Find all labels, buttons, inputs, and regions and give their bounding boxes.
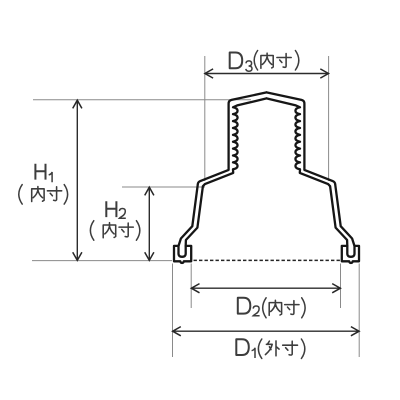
D3 left extension line: [204, 56, 206, 181]
D3 dimension line: [205, 73, 328, 75]
right foot rim: [342, 246, 359, 263]
left foot rim: [174, 246, 191, 263]
D3 right extension line: [328, 56, 330, 181]
H2 top extension line: [122, 186, 205, 188]
D2 right extension line: [340, 264, 342, 309]
D2 dimension line: [192, 287, 341, 289]
cap wall cross-section left half: [179, 92, 267, 256]
H2 dimension line: [148, 187, 150, 260]
H1 top extension line: [33, 99, 251, 101]
label D3 (inner): [230, 53, 243, 69]
bottom extension line: [32, 260, 172, 262]
label D1 (outer): [236, 339, 249, 355]
D2 left extension line: [190, 264, 192, 309]
label H2 (inner): [106, 201, 116, 217]
label H1 (inner): [35, 164, 45, 180]
H1 dimension line: [76, 101, 78, 261]
D1 dimension line: [173, 330, 359, 332]
cap wall cross-section right half: [267, 92, 355, 256]
label D2 (inner): [238, 298, 251, 314]
dashed bottom opening line: [194, 259, 341, 261]
D1 left extension line: [172, 264, 174, 358]
D1 right extension line: [358, 264, 360, 358]
